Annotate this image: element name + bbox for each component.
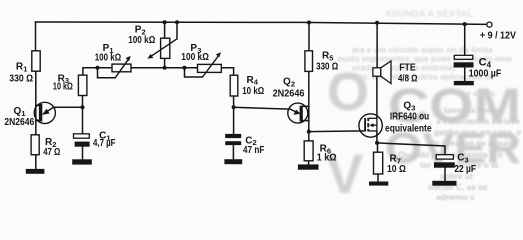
node C4 rail [463,22,467,26]
svg-text:C: C [457,153,464,164]
resistor R4 [230,75,238,96]
wire left rail to R1 [35,22,37,51]
supply terminal +9/12V [487,22,492,27]
resistor R3 [78,75,87,95]
svg-text:330 Ω: 330 Ω [316,61,338,72]
wire source node to C3 [377,143,445,155]
transistor Q2 (UJT 2N2646) [288,103,308,123]
transistor Q3 (MOSFET IRF640) [359,114,382,137]
svg-text:47 Ω: 47 Ω [43,147,60,158]
svg-text:+ 9 / 12V: + 9 / 12V [480,30,516,41]
ghost bleed-through text (scan artifact) [326,9,522,206]
potentiometer P1 wiper arrow [115,58,129,78]
wire P2 bottom [164,58,166,67]
capacitor C3 (electrolytic) [436,155,453,159]
svg-text:4,7 µF: 4,7 µF [93,138,116,149]
potentiometer P2 wiper arrow [151,39,177,57]
wire Q2 emitter [234,107,299,113]
wire P1 to P2 to P3 chain [131,67,198,69]
node Q2 emitter junction [232,105,236,109]
wire R2 to ground [35,155,37,169]
svg-text:equivalente: equivalente [385,124,432,135]
node P2 top rail [163,20,167,24]
node Q2 B1 junction [307,130,311,134]
potentiometer P2 body [161,38,170,58]
svg-text:tamos a todos: tamos a todos [444,105,501,115]
speaker FTE [373,68,381,76]
wire Q3 source to R7 [377,143,379,152]
svg-text:330 Ω: 330 Ω [9,73,33,84]
wire C3 to ground [444,168,446,181]
svg-text:10 kΩ: 10 kΩ [53,82,73,93]
svg-text:Q: Q [14,106,22,117]
wire C2 to ground [232,145,234,159]
svg-text:10 Ω: 10 Ω [387,164,406,175]
svg-text:Q: Q [403,100,411,111]
wire R5 top [308,23,310,51]
wire C1 to ground [82,147,84,160]
svg-text:2: 2 [291,80,295,89]
wire P1 wiper bypass [98,68,116,78]
capacitor C4 (electrolytic) [454,55,473,59]
svg-text:2N2646: 2N2646 [273,89,305,100]
ground (C2) [224,159,242,164]
potentiometer P1 body [112,64,131,72]
node P2 bottom [163,66,167,70]
svg-text:V: V [326,142,363,204]
wire R5 to Q2 B2, Q2 B1 to R6 [308,71,310,140]
svg-text:1: 1 [23,64,27,73]
svg-text:22 µF: 22 µF [454,164,476,175]
wire Q2 base stubs [303,105,309,107]
ground (R7) [369,182,388,186]
wire Q1 emitter [44,107,83,114]
node speaker rail [375,21,379,25]
wire P3 wiper bypass [185,68,203,77]
svg-text:ganho que, no caso, e: ganho que, no caso, e [434,127,522,137]
resistor R5 [305,51,313,72]
svg-text:100 kΩ: 100 kΩ [95,53,122,64]
node Q3 source junction [375,141,379,145]
svg-text:4/8 Ω: 4/8 Ω [398,73,418,84]
potentiometer P3 body [198,64,222,72]
wire R6 to ground [308,161,310,165]
wire C4 from rail [464,24,466,55]
svg-text:2N2646: 2N2646 [4,117,34,128]
svg-text:e ainda: e ainda [466,88,495,98]
svg-text:adnemo c: adnemo c [436,192,475,202]
svg-text:a inductancia variave: a inductancia variave [436,116,520,126]
wire R7 to ground [377,174,379,182]
wire P3 to R4 [222,68,234,75]
ground (R2) [26,169,45,174]
node Q1 emitter junction [81,105,85,109]
capacitor C2 [225,134,241,138]
svg-text:1 kΩ: 1 kΩ [317,153,337,164]
node R5 rail [307,21,311,25]
potentiometer P3 wiper arrow [203,55,220,77]
capacitor C1 (electrolytic) [74,134,90,138]
ground (R6) [298,164,319,169]
svg-text:C: C [479,57,487,69]
svg-text:ASUNDA A SEXTAL: ASUNDA A SEXTAL [385,9,473,19]
wire Q2 B1 to Q3 gate [309,130,365,133]
wire P2 top [164,22,166,38]
wire R4 bottom to C2 [233,96,235,134]
svg-text:100 kΩ: 100 kΩ [128,35,155,46]
wire Q3 source down [376,131,378,143]
svg-text:FTE: FTE [399,63,416,74]
svg-text:100 kΩ: 100 kΩ [181,52,209,63]
wire R3 bottom to C1 [82,96,84,134]
faint caption dashes [84,188,274,190]
node dots [81,20,467,145]
resistor R7 [374,152,383,174]
ground (C3) [432,181,456,186]
svg-text:1000 µF: 1000 µF [469,68,501,79]
wire speaker to rail [376,23,378,68]
resistor R1 [32,51,40,71]
transistor Q1 (UJT 2N2646) [34,102,55,123]
wire speaker to Q3 drain [376,76,378,118]
node P2 wiper rail [175,20,179,24]
wire C4 to ground [464,68,466,82]
node P3 bypass [183,66,187,70]
ground (C1) [72,159,92,164]
svg-text:Q: Q [283,77,291,88]
svg-text:IRF640 ou: IRF640 ou [390,112,429,123]
wire P2 wiper from rail [176,22,178,39]
wire R1 to Q1 to R2 [35,71,37,135]
wire Q1 base stubs [36,104,39,106]
wire R3 top to chain [83,68,112,75]
wire top supply rail [36,22,487,24]
ground (C4) [454,81,474,85]
resistor R6 [304,141,313,161]
node P1 left junction [96,66,100,70]
resistor R2 [31,135,39,155]
svg-text:10 kΩ: 10 kΩ [242,86,264,97]
svg-text:47 nF: 47 nF [243,145,264,156]
